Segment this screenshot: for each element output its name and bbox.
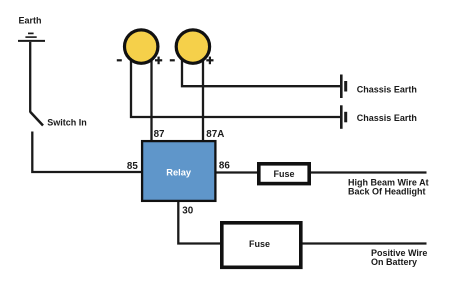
svg-text:Fuse: Fuse — [273, 169, 294, 179]
wire fuse F1 to headlight — [311, 171, 427, 173]
wire relay pin 86 to fuse F1 — [217, 171, 259, 173]
switch SW1 blade — [30, 112, 43, 126]
svg-text:87A: 87A — [206, 129, 224, 140]
svg-text:Switch In: Switch In — [47, 118, 87, 128]
lamp L1 minus label — [117, 59, 122, 61]
wire lamp1 plus to pin 87 — [150, 46, 152, 140]
lamp L1 — [125, 30, 158, 63]
wire earth to switch — [29, 42, 31, 113]
wire switch to corner — [32, 132, 141, 173]
lamp L2 minus label — [170, 59, 175, 61]
svg-text:Chassis Earth: Chassis Earth — [357, 113, 417, 123]
chassis earth symbol E1 — [340, 75, 347, 99]
wire lamp1 minus to chassis earth line — [131, 46, 341, 117]
wire lamp2 minus to chassis earth line — [182, 46, 341, 86]
lamp L2 plus label — [206, 57, 213, 65]
fuse F2 — [222, 223, 301, 267]
chassis earth symbol E2 — [340, 105, 347, 129]
lamp L1 plus label — [155, 57, 162, 65]
svg-text:86: 86 — [219, 161, 230, 172]
svg-text:Fuse: Fuse — [249, 239, 270, 249]
svg-text:Relay: Relay — [166, 168, 192, 178]
svg-text:Earth: Earth — [19, 16, 42, 26]
svg-text:On Battery: On Battery — [371, 257, 417, 267]
wire relay pin 30 to fuse F2 — [178, 202, 221, 244]
ground symbol (Earth) — [18, 33, 45, 41]
svg-text:85: 85 — [127, 161, 138, 172]
fuse F1 — [259, 164, 309, 184]
svg-text:Back Of Headlight: Back Of Headlight — [348, 187, 426, 197]
wire lamp2 plus to pin 87A — [202, 46, 204, 140]
svg-text:Chassis Earth: Chassis Earth — [357, 85, 417, 95]
wire fuse F2 to battery — [303, 242, 427, 244]
svg-text:30: 30 — [182, 206, 193, 217]
svg-text:87: 87 — [154, 129, 165, 140]
lamp L2 — [176, 30, 209, 63]
relay K1 — [142, 141, 215, 201]
